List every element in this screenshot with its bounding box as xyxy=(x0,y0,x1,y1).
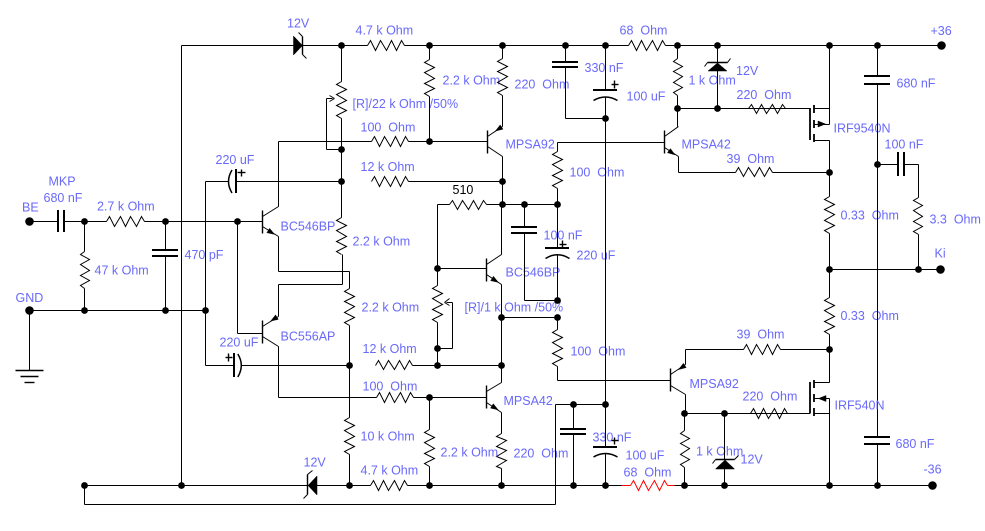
capacitor 220 uF (lower, polarized) xyxy=(220,336,259,378)
node junction xyxy=(554,314,561,321)
resistor 2.2 k Ohm (x=429 top) xyxy=(425,46,501,142)
svg-text:220 uF: 220 uF xyxy=(216,153,255,167)
svg-text:12V: 12V xyxy=(287,17,310,31)
label 0.33 Ohm (bottom) xyxy=(841,309,899,323)
wire xyxy=(413,365,502,367)
svg-text:12V: 12V xyxy=(736,64,759,78)
svg-text:IRF9540N: IRF9540N xyxy=(834,122,891,136)
resistor 100 Ohm (mid bottom) xyxy=(553,330,626,367)
node junction xyxy=(346,362,353,369)
node junction xyxy=(426,138,433,145)
svg-text:4.7 k Ohm: 4.7 k Ohm xyxy=(356,24,414,38)
capacitor 680 nF (input MKP) xyxy=(44,191,83,232)
node junction xyxy=(434,265,441,272)
wire xyxy=(242,365,350,367)
node junction xyxy=(721,410,728,417)
resistor 39 Ohm (bottom) xyxy=(737,328,785,355)
node junction xyxy=(826,266,833,273)
resistor 0.33 Ohm (bottom) xyxy=(825,270,835,350)
resistor 510 xyxy=(450,201,487,210)
resistor 2.7 k Ohm xyxy=(97,200,155,227)
node junction xyxy=(915,266,922,273)
node junction xyxy=(874,482,881,489)
wire xyxy=(349,326,351,418)
resistor 220 Ohm (gate top) xyxy=(737,88,792,114)
wire xyxy=(437,205,439,269)
wire Q1 emitter xyxy=(278,237,280,272)
wire Q5 collector xyxy=(501,205,503,255)
svg-text:68 Ohm: 68 Ohm xyxy=(624,466,672,480)
node junction xyxy=(602,482,609,489)
wire xyxy=(877,85,879,438)
ground xyxy=(16,311,44,383)
svg-text:3.3 Ohm: 3.3 Ohm xyxy=(930,213,981,227)
node junction xyxy=(674,105,681,112)
wire GND rail xyxy=(30,310,206,312)
node BE (input terminal) xyxy=(22,201,39,226)
node junction xyxy=(681,482,688,489)
label MKP xyxy=(49,175,76,189)
wire xyxy=(409,141,488,143)
wire Q6 collector xyxy=(501,366,503,383)
wire xyxy=(557,143,559,152)
node junction xyxy=(202,307,209,314)
transistor Q1 BC546BP xyxy=(263,207,336,237)
wire xyxy=(279,397,377,399)
svg-text:2.2 k Ohm: 2.2 k Ohm xyxy=(353,235,411,249)
wire Q5 base xyxy=(438,268,487,270)
mosfet IRF540N xyxy=(810,380,885,416)
wire Q2 collector xyxy=(278,347,280,398)
resistor 100 Ohm (bottom) xyxy=(363,380,418,403)
capacitor 100 nF (mid) xyxy=(511,205,583,301)
svg-text:510: 510 xyxy=(453,183,474,197)
node junction xyxy=(499,42,506,49)
svg-text:100 nF: 100 nF xyxy=(885,138,924,152)
potentiometer [R]/22 k Ohm /50% xyxy=(327,46,459,150)
svg-text:1 k Ohm: 1 k Ohm xyxy=(696,445,743,459)
node junction xyxy=(874,161,881,168)
label 68 Ohm (bottom) xyxy=(624,466,672,480)
node junction xyxy=(674,42,681,49)
capacitor 330 nF (bottom) xyxy=(560,405,632,486)
resistor 47 k Ohm xyxy=(81,222,149,311)
wire xyxy=(84,486,86,505)
wire xyxy=(205,182,207,366)
wire bottom rail xyxy=(85,485,308,487)
svg-text:220 Ohm: 220 Ohm xyxy=(743,390,798,404)
svg-text:[R]/22 k Ohm /50%: [R]/22 k Ohm /50% xyxy=(353,97,459,111)
node junction xyxy=(826,482,833,489)
node junction xyxy=(498,482,505,489)
wire top rail xyxy=(303,45,368,47)
wire xyxy=(487,204,558,206)
node junction xyxy=(602,401,609,408)
resistor 1 k Ohm (top) xyxy=(674,46,736,109)
wire output xyxy=(830,269,941,271)
zener diode 12V (top left) xyxy=(287,17,310,59)
resistor 100 Ohm (mid top) xyxy=(553,152,625,189)
wire xyxy=(145,221,263,223)
svg-text:0.33 Ohm: 0.33 Ohm xyxy=(841,309,899,323)
resistor 68 Ohm (top) xyxy=(620,24,668,51)
wire xyxy=(558,380,671,382)
wire Q7 collector xyxy=(685,395,687,414)
svg-text:680 nF: 680 nF xyxy=(44,191,83,205)
svg-text:12 k Ohm: 12 k Ohm xyxy=(363,342,417,356)
svg-text:220 Ohm: 220 Ohm xyxy=(515,78,570,92)
wire Q5 emitter xyxy=(501,285,503,318)
wire xyxy=(555,405,557,505)
svg-text:2.2 k Ohm: 2.2 k Ohm xyxy=(362,301,420,315)
svg-text:12V: 12V xyxy=(304,456,327,470)
transistor Q3 MPSA92 xyxy=(488,125,555,157)
wire xyxy=(279,284,343,286)
wire left feedback vertical xyxy=(181,46,183,486)
resistor 39 Ohm (top) xyxy=(727,152,775,177)
svg-text:100 uF: 100 uF xyxy=(627,90,666,104)
svg-text:330 nF: 330 nF xyxy=(585,61,624,75)
wire bottom rail xyxy=(408,485,622,487)
node junction xyxy=(162,218,169,225)
svg-text:100 Ohm: 100 Ohm xyxy=(570,166,625,180)
wire top rail xyxy=(182,45,294,47)
capacitor 220 uF (mid, polarized) xyxy=(545,205,616,301)
resistor 2.2 k Ohm (x=349) xyxy=(345,289,420,326)
svg-text:10 k Ohm: 10 k Ohm xyxy=(361,430,415,444)
resistor 12 k Ohm (bottom) xyxy=(363,342,417,370)
mosfet IRF9540N xyxy=(810,105,890,142)
svg-text:IRF540N: IRF540N xyxy=(835,399,885,413)
resistor 4.7 k Ohm (top) xyxy=(356,24,414,51)
wire xyxy=(437,349,439,366)
svg-text:Ki: Ki xyxy=(935,247,946,261)
wire Q3 collector xyxy=(502,157,504,182)
resistor 12 k Ohm (top) xyxy=(361,160,415,187)
svg-text:100 Ohm: 100 Ohm xyxy=(363,380,418,394)
svg-text:MPSA42: MPSA42 xyxy=(504,394,553,408)
svg-text:39 Ohm: 39 Ohm xyxy=(737,328,785,342)
node +36 terminal xyxy=(931,24,952,50)
wire xyxy=(279,271,350,273)
wire xyxy=(557,318,559,330)
node junction xyxy=(499,201,506,208)
node junction xyxy=(562,42,569,49)
node junction xyxy=(338,146,345,153)
svg-text:39 Ohm: 39 Ohm xyxy=(727,152,775,166)
node junction xyxy=(826,346,833,353)
node junction xyxy=(498,362,505,369)
wire bottom rail xyxy=(317,485,371,487)
label 100 Ohm (top) xyxy=(361,121,416,135)
transistor Q7 MPSA92 xyxy=(671,363,739,394)
capacitor 100 nF (output zobel) xyxy=(878,138,924,177)
svg-text:12 k Ohm: 12 k Ohm xyxy=(361,160,415,174)
wire xyxy=(341,150,343,182)
svg-text:680 nF: 680 nF xyxy=(896,437,935,451)
node junction xyxy=(554,201,561,208)
wire xyxy=(685,413,811,415)
resistor 3.3 Ohm xyxy=(914,165,981,270)
resistor 1 k Ohm (bottom) xyxy=(681,414,744,486)
wire xyxy=(679,172,736,174)
transistor Q2 BC556AP xyxy=(263,315,336,347)
wire xyxy=(414,397,487,399)
resistor 100 Ohm (top) xyxy=(372,137,409,147)
wire center vertical xyxy=(605,97,607,405)
wire xyxy=(206,365,235,367)
node junction xyxy=(338,178,345,185)
wire xyxy=(502,182,504,205)
node junction xyxy=(338,42,345,49)
svg-text:1 k Ohm: 1 k Ohm xyxy=(689,74,736,88)
wire Q4 base line xyxy=(558,142,665,144)
node junction xyxy=(570,401,577,408)
wire xyxy=(557,367,559,381)
wire xyxy=(556,404,606,406)
node junction xyxy=(714,42,721,49)
svg-text:220 uF: 220 uF xyxy=(577,249,616,263)
node -36 terminal xyxy=(924,463,942,490)
svg-text:MPSA92: MPSA92 xyxy=(690,377,739,391)
svg-text:BE: BE xyxy=(22,201,39,215)
node junction xyxy=(602,115,609,122)
capacitor 100 uF (top, polarized) xyxy=(593,46,666,104)
svg-text:100 Ohm: 100 Ohm xyxy=(361,121,416,135)
wire Q4 emitter xyxy=(678,157,680,173)
svg-text:4.7 k Ohm: 4.7 k Ohm xyxy=(361,464,419,478)
wire xyxy=(206,181,229,183)
wire xyxy=(773,172,830,174)
node GND (terminal) xyxy=(16,291,44,315)
wire xyxy=(566,118,606,120)
svg-text:680 nF: 680 nF xyxy=(897,77,936,91)
resistor 2.2 k Ohm (x=429 bottom) xyxy=(425,398,499,486)
wire xyxy=(525,300,558,302)
capacitor 330 nF (top) xyxy=(552,46,624,119)
wire IRF540N drain xyxy=(829,350,831,383)
svg-text:2.2 k Ohm: 2.2 k Ohm xyxy=(441,446,499,460)
svg-text:BC556AP: BC556AP xyxy=(281,330,336,344)
wire Q2 emitter xyxy=(278,285,280,317)
svg-text:2.2 k Ohm: 2.2 k Ohm xyxy=(443,74,501,88)
wire xyxy=(237,181,342,183)
wire xyxy=(349,272,351,289)
transistor Q5 BC546BP xyxy=(487,255,561,285)
node junction xyxy=(434,362,441,369)
wire xyxy=(65,221,107,223)
svg-text:12V: 12V xyxy=(741,453,764,467)
svg-text:GND: GND xyxy=(16,291,44,305)
svg-text:220 Ohm: 220 Ohm xyxy=(737,88,792,102)
node junction xyxy=(234,218,241,225)
transistor Q6 MPSA42 xyxy=(487,383,553,413)
node junction xyxy=(426,42,433,49)
node junction xyxy=(81,218,88,225)
wire xyxy=(501,318,503,366)
node junction xyxy=(826,42,833,49)
wire Q4 collector xyxy=(677,109,679,127)
resistor 220 Ohm (Q6 emitter) xyxy=(497,413,569,486)
node junction xyxy=(554,297,561,304)
node junction xyxy=(434,345,441,352)
node junction xyxy=(346,482,353,489)
wire xyxy=(409,181,503,183)
svg-text:100 nF: 100 nF xyxy=(544,229,583,243)
svg-text:2.7 k Ohm: 2.7 k Ohm xyxy=(97,200,155,214)
resistor 0.33 Ohm (top) xyxy=(825,173,899,270)
node junction xyxy=(498,314,505,321)
resistor 220 Ohm (Q3 emitter) xyxy=(498,46,570,127)
wire Q1 collector xyxy=(278,142,280,207)
node junction xyxy=(426,482,433,489)
svg-text:68 Ohm: 68 Ohm xyxy=(620,24,668,38)
wire xyxy=(686,349,744,351)
capacitor 470 pF xyxy=(152,222,224,311)
svg-text:MPSA92: MPSA92 xyxy=(506,138,555,152)
wire xyxy=(30,221,59,223)
node junction xyxy=(681,410,688,417)
node Ki terminal xyxy=(935,247,946,274)
wire xyxy=(557,189,559,205)
wire xyxy=(279,141,372,143)
node junction xyxy=(721,482,728,489)
svg-text:220 Ohm: 220 Ohm xyxy=(514,447,569,461)
node junction xyxy=(826,169,833,176)
svg-text:BC546BP: BC546BP xyxy=(281,220,336,234)
capacitor 220 uF (upper, polarized) xyxy=(216,153,255,193)
zener diode 12V (bottom right) xyxy=(713,414,764,486)
wire xyxy=(85,504,556,506)
transistor Q4 MPSA42 xyxy=(665,127,731,157)
svg-text:100 uF: 100 uF xyxy=(626,449,665,463)
capacitor 680 nF (bottom right) xyxy=(864,437,935,486)
svg-text:BC546BP: BC546BP xyxy=(506,266,561,280)
node junction xyxy=(81,482,88,489)
wire xyxy=(678,108,811,110)
svg-text:0.33 Ohm: 0.33 Ohm xyxy=(841,209,899,223)
svg-text:220 uF: 220 uF xyxy=(220,336,259,350)
resistor 2.2 k Ohm (Q1 collector load) xyxy=(337,182,411,255)
wire top rail xyxy=(405,45,629,47)
wire IRF540N source xyxy=(829,414,831,486)
svg-text:MKP: MKP xyxy=(49,175,76,189)
wire xyxy=(438,204,450,206)
resistor 220 Ohm (gate bottom) xyxy=(743,390,798,419)
wire xyxy=(502,317,558,319)
node junction xyxy=(162,307,169,314)
node junction xyxy=(178,482,185,489)
wire top rail xyxy=(666,45,942,47)
node junction xyxy=(426,394,433,401)
resistor 4.7 k Ohm (bottom) xyxy=(361,464,419,491)
node junction xyxy=(499,178,506,185)
svg-text:100 Ohm: 100 Ohm xyxy=(571,345,626,359)
svg-text:+36: +36 xyxy=(931,24,952,38)
label 510 xyxy=(453,183,474,197)
wire xyxy=(781,349,830,351)
node junction xyxy=(81,307,88,314)
svg-text:[R]/1 k Ohm /50%: [R]/1 k Ohm /50% xyxy=(465,301,564,315)
node junction xyxy=(521,201,528,208)
wire 2.2k lead xyxy=(342,255,344,285)
wire Q7 emitter xyxy=(685,350,687,365)
node junction xyxy=(570,482,577,489)
svg-text:-36: -36 xyxy=(924,463,942,477)
zener diode 12V (bottom left) xyxy=(304,456,327,499)
capacitor 100 uF (bottom, polarized) xyxy=(593,405,665,486)
capacitor 680 nF (top right) xyxy=(864,46,936,91)
svg-text:MPSA42: MPSA42 xyxy=(682,138,731,152)
node junction xyxy=(874,42,881,49)
resistor 10 k Ohm xyxy=(345,418,415,486)
wire bottom rail xyxy=(675,485,933,487)
wire IRF9540N source xyxy=(829,46,831,109)
node junction xyxy=(602,42,609,49)
svg-text:47 k Ohm: 47 k Ohm xyxy=(95,264,149,278)
wire Q2 base xyxy=(238,222,263,334)
resistor 68 Ohm (bottom, highlighted red) xyxy=(622,481,675,491)
potentiometer [R]/1 k Ohm /50% xyxy=(433,269,564,349)
svg-text:330 nF: 330 nF xyxy=(593,431,632,445)
node junction xyxy=(714,105,721,112)
zener diode 12V (top right) xyxy=(705,46,759,109)
svg-text:470 pF: 470 pF xyxy=(185,248,224,262)
wire IRF9540N drain xyxy=(829,141,831,173)
